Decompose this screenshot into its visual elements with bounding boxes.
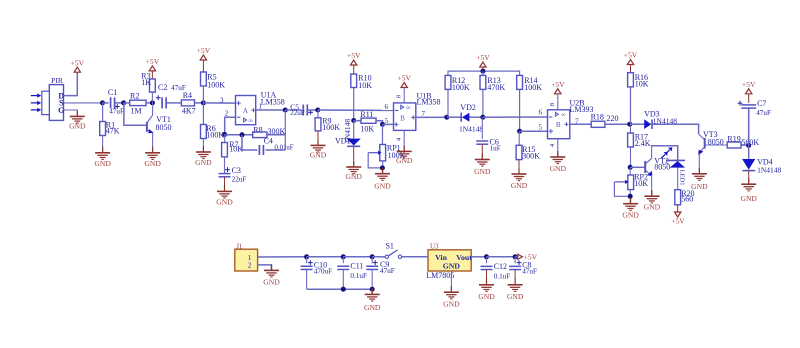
- svg-text:U3: U3: [430, 242, 439, 250]
- svg-text:GND: GND: [740, 194, 757, 203]
- wire VD3 to VT3: [652, 124, 699, 134]
- ground under RP2: [622, 198, 639, 220]
- svg-text:+5V: +5V: [71, 58, 85, 67]
- pin 4 stub U1B: [396, 130, 405, 151]
- +5V at C7: [742, 80, 756, 94]
- capacitor C2: [156, 83, 186, 108]
- pin 2 label: [225, 109, 229, 117]
- svg-text:220: 220: [607, 114, 619, 123]
- svg-text:47uF: 47uF: [109, 108, 124, 116]
- svg-text:∞: ∞: [248, 118, 253, 125]
- svg-text:300K: 300K: [522, 152, 540, 161]
- svg-text:100K: 100K: [207, 81, 225, 90]
- svg-text:GND: GND: [443, 262, 461, 271]
- node B at C1/R2/VT1 base: [121, 100, 126, 105]
- wire U1B output: [416, 116, 447, 118]
- top rail wire: [448, 71, 520, 75]
- wire VT3 emitter to ground: [698, 154, 700, 174]
- pin 5 label U1B: [385, 117, 389, 125]
- node F at pin2/R7/R8: [222, 132, 227, 137]
- ground under C9: [364, 288, 381, 312]
- pin 7 label U2B: [575, 118, 579, 126]
- wire rail C10 to C11: [307, 256, 344, 258]
- diode VD1 1N4148: [335, 119, 361, 147]
- wire PIR S pin to node: [64, 102, 103, 104]
- resistor R10: [351, 65, 373, 90]
- svg-text:GND: GND: [622, 211, 639, 220]
- wire node F to R8: [225, 134, 253, 136]
- capacitor C10: [301, 257, 333, 289]
- ground under C8: [507, 279, 524, 301]
- svg-text:22uF: 22uF: [232, 175, 247, 183]
- wire C9 to switch S1: [372, 256, 385, 258]
- svg-text:R18: R18: [591, 113, 604, 122]
- wire R10 to node I: [353, 88, 355, 121]
- resistor R8: [253, 125, 286, 137]
- wire VT2 emitter to ground: [651, 175, 653, 196]
- diode VD2 1N4148: [447, 103, 484, 134]
- capacitor C1: [108, 88, 124, 116]
- node S at C10: [304, 254, 309, 259]
- capacitor C6: [476, 117, 500, 152]
- node K at RP1 bottom: [380, 165, 385, 170]
- svg-text:GND: GND: [691, 182, 708, 191]
- wire node to C1: [103, 102, 109, 104]
- +5V at U2B pin 8: [551, 80, 565, 110]
- svg-text:47K: 47K: [106, 127, 120, 136]
- svg-text:5: 5: [538, 124, 542, 132]
- wire C7 to node R: [748, 108, 750, 159]
- regulator U3 LM7805: [426, 242, 472, 279]
- pin 6 label U2B: [538, 109, 542, 117]
- svg-text:GND: GND: [144, 159, 161, 168]
- svg-text:J1: J1: [236, 242, 243, 250]
- node J at U1B pin5/RP1: [380, 122, 385, 127]
- resistor R17: [628, 124, 651, 148]
- svg-text:47uF: 47uF: [522, 268, 537, 276]
- +5V output port: [515, 252, 538, 261]
- ground under C12: [478, 279, 495, 301]
- ground under R1: [94, 147, 111, 168]
- resistor R7: [222, 135, 244, 157]
- svg-text:100K: 100K: [322, 123, 340, 132]
- svg-text:B: B: [556, 121, 561, 129]
- resistor R11: [354, 110, 383, 133]
- ground under U3: [443, 286, 460, 308]
- wire C2 to R4: [166, 102, 181, 104]
- svg-text:R4: R4: [183, 91, 192, 100]
- svg-text:47uF: 47uF: [380, 267, 395, 275]
- transistor VT1 8050: [147, 103, 172, 133]
- wire R1 to ground: [102, 136, 104, 153]
- capacitor C7: [738, 94, 771, 117]
- wire U1A output: [256, 109, 286, 111]
- wire R20 to +5V: [677, 205, 679, 212]
- diode VD4 1N4148: [742, 157, 781, 174]
- svg-text:8: 8: [396, 95, 403, 98]
- svg-text:GND: GND: [94, 159, 111, 168]
- ground under VT2: [644, 190, 661, 211]
- svg-text:4K7: 4K7: [182, 107, 196, 116]
- svg-text:C7: C7: [757, 99, 766, 108]
- node E at U1A output: [283, 108, 288, 113]
- svg-text:GND: GND: [644, 203, 661, 212]
- svg-text:GND: GND: [195, 158, 212, 167]
- resistor R6: [201, 103, 225, 139]
- resistor R4: [181, 91, 203, 116]
- svg-text:GND: GND: [396, 156, 413, 165]
- svg-text:1: 1: [259, 102, 263, 110]
- svg-text:0.01uF: 0.01uF: [275, 144, 294, 151]
- +5V at R16: [624, 51, 638, 65]
- svg-text:LM7805: LM7805: [426, 271, 454, 280]
- svg-text:B: B: [400, 114, 405, 122]
- svg-text:C12: C12: [494, 262, 507, 271]
- svg-text:GND: GND: [364, 303, 381, 312]
- wire PIR D pin to +5V: [64, 72, 78, 95]
- svg-text:VD2: VD2: [460, 103, 476, 112]
- resistor R19: [727, 135, 759, 148]
- wire U3 GND pin: [450, 271, 452, 292]
- node I at R10/VD1/R11: [351, 118, 356, 123]
- svg-text:1uF: 1uF: [490, 145, 501, 153]
- node V at bottom rail C11: [341, 287, 346, 292]
- node N at R14/R15/U2B pin5: [517, 129, 522, 134]
- svg-text:C3: C3: [232, 166, 241, 175]
- wire U1A pin 2: [225, 117, 236, 134]
- wire S1 to U3: [402, 256, 428, 258]
- svg-text:GND: GND: [216, 198, 233, 207]
- svg-text:22uF: 22uF: [290, 109, 305, 117]
- svg-text:6: 6: [538, 109, 542, 117]
- svg-text:R2: R2: [130, 91, 139, 100]
- svg-text:8: 8: [549, 103, 556, 106]
- pin 7 label U1B: [422, 110, 426, 118]
- capacitor C3: [219, 157, 247, 183]
- pin 8 label U2B: [549, 103, 556, 106]
- +5V at U1B pin 8: [397, 74, 411, 103]
- ground under C3: [216, 185, 233, 206]
- +5V at R5: [197, 46, 211, 60]
- wire R6 to ground: [202, 139, 204, 153]
- node T at C11 top: [341, 254, 346, 259]
- svg-text:C1: C1: [108, 88, 117, 97]
- svg-text:5: 5: [385, 117, 389, 125]
- wire R16 to node O: [630, 87, 632, 124]
- wire C8 to ground: [514, 270, 516, 285]
- ground under R9: [310, 139, 327, 159]
- wire VD4 to ground: [748, 171, 750, 185]
- potentiometer RP2: [614, 167, 648, 203]
- wire R9 to ground: [317, 131, 319, 146]
- wire node N to U2B pin 5: [520, 130, 548, 132]
- svg-text:10K: 10K: [358, 81, 372, 90]
- node O at R16/R17/VD3: [627, 122, 632, 127]
- wire rail C11 to C9: [343, 256, 372, 258]
- wire R15 to ground: [518, 160, 520, 174]
- node H at R9: [315, 108, 320, 113]
- svg-text:∞: ∞: [561, 112, 566, 119]
- svg-text:10K: 10K: [634, 179, 648, 188]
- svg-text:47uF: 47uF: [756, 109, 771, 117]
- svg-text:GND: GND: [374, 181, 391, 190]
- ground at PIR G pin: [69, 110, 86, 130]
- svg-text:GND: GND: [263, 278, 280, 287]
- resistor R14: [517, 75, 543, 131]
- wire R17 to node P: [630, 147, 632, 167]
- svg-text:1M: 1M: [131, 106, 142, 115]
- svg-text:470uF: 470uF: [314, 267, 332, 275]
- svg-text:∞: ∞: [406, 105, 411, 112]
- switch S1: [385, 241, 402, 258]
- resistor R16: [628, 65, 649, 89]
- wire C6 to ground: [481, 144, 483, 159]
- wire node M to U2B pin 6: [483, 116, 548, 118]
- ground under VT3: [691, 168, 708, 191]
- transistor VT3 8050: [698, 130, 727, 155]
- svg-text:A: A: [243, 107, 248, 115]
- svg-text:GND: GND: [443, 300, 460, 309]
- resistor R1: [100, 103, 120, 136]
- comparator U2B LM393: [548, 99, 594, 139]
- svg-text:+5V: +5V: [742, 80, 756, 89]
- bottom rail: [307, 288, 373, 290]
- svg-text:S1: S1: [385, 241, 393, 250]
- wire C12 to C8: [487, 256, 516, 258]
- pin 6 label U1B: [384, 103, 388, 111]
- svg-text:10K: 10K: [360, 124, 374, 133]
- capacitor C11: [337, 257, 367, 289]
- ground under R6: [195, 146, 212, 167]
- node Y at C8: [513, 254, 518, 259]
- svg-text:+5V: +5V: [671, 216, 685, 225]
- svg-text:GND: GND: [478, 292, 495, 301]
- svg-text:GND: GND: [507, 292, 524, 301]
- resistor R5: [201, 60, 226, 103]
- svg-text:2: 2: [225, 109, 229, 117]
- svg-text:+5V: +5V: [551, 80, 565, 89]
- svg-text:2.4K: 2.4K: [635, 139, 651, 148]
- ground at J1 pin 2: [263, 264, 280, 286]
- svg-text:GND: GND: [69, 121, 86, 130]
- pin 1 label: [259, 102, 263, 110]
- pin 4 stub U2B: [549, 139, 558, 157]
- node X at C12: [484, 254, 489, 259]
- wire feedback vertical: [284, 110, 286, 150]
- svg-text:G: G: [58, 106, 64, 115]
- +5V below R20: [671, 212, 685, 225]
- svg-text:10K: 10K: [229, 145, 243, 154]
- svg-text:C2: C2: [158, 83, 167, 92]
- resistor R3: [141, 71, 155, 103]
- pin 5 label U2B: [538, 124, 542, 132]
- pin 8 label U1B: [396, 95, 403, 98]
- node R at R19/C7/VD4: [746, 143, 751, 148]
- capacitor C4: [242, 135, 294, 155]
- wire J1 pin 2 to ground: [258, 265, 272, 271]
- wire node D to U1A pin 3: [203, 102, 235, 104]
- wire PIR G pin to ground: [64, 110, 78, 116]
- svg-text:10K: 10K: [635, 79, 649, 88]
- svg-text:7: 7: [422, 110, 426, 118]
- op-amp U1B LM358: [394, 91, 441, 130]
- svg-text:+5V: +5V: [624, 51, 638, 60]
- svg-text:1N4148: 1N4148: [343, 119, 352, 143]
- node L at U1B out/R12: [444, 115, 449, 120]
- svg-text:GND: GND: [474, 167, 491, 176]
- +5V at PIR: [71, 58, 85, 72]
- ground under VD4: [740, 178, 757, 203]
- resistor R15: [516, 131, 540, 160]
- svg-text:100K: 100K: [206, 130, 224, 139]
- pin 3 label: [220, 96, 224, 104]
- svg-text:2: 2: [248, 260, 252, 269]
- svg-text:100K: 100K: [452, 83, 470, 92]
- resistor R9: [315, 110, 340, 132]
- node D at R5/R6: [201, 100, 206, 105]
- ground under C6: [474, 154, 491, 177]
- wire node J to U1B pin 5: [383, 123, 394, 125]
- +5V at R10: [347, 51, 361, 65]
- +5V at R3: [146, 57, 160, 71]
- svg-text:LM358: LM358: [417, 97, 441, 106]
- svg-text:R19: R19: [727, 135, 740, 144]
- wire U2B output to R18: [570, 123, 591, 125]
- capacitor C12: [481, 257, 511, 281]
- wire VT1 base bias: [124, 103, 147, 125]
- svg-text:0.1uF: 0.1uF: [350, 272, 367, 280]
- node U at C9 top: [370, 254, 375, 259]
- diode VD3 1N4148: [630, 110, 677, 130]
- svg-text:C4: C4: [264, 136, 273, 145]
- svg-text:+5V: +5V: [524, 252, 538, 261]
- svg-text:1N4148: 1N4148: [757, 166, 781, 175]
- svg-text:470K: 470K: [487, 83, 505, 92]
- connector J1: [235, 242, 258, 271]
- wire U3 out to C12: [471, 256, 486, 258]
- svg-text:8050: 8050: [654, 163, 670, 172]
- svg-text:+5V: +5V: [197, 46, 211, 55]
- wire C1 to node B: [115, 102, 124, 104]
- wire C12 to ground: [486, 270, 488, 285]
- svg-text:100K: 100K: [524, 83, 542, 92]
- svg-text:3: 3: [220, 96, 224, 104]
- wire bottom rail to ground: [371, 289, 373, 294]
- svg-text:R11: R11: [360, 110, 373, 119]
- svg-text:C11: C11: [350, 261, 363, 270]
- resistor R12: [445, 75, 470, 117]
- svg-text:8050: 8050: [708, 137, 724, 146]
- wire J1 pin 1 rail: [258, 256, 307, 258]
- svg-text:GND: GND: [511, 181, 528, 190]
- svg-text:LM358: LM358: [261, 97, 285, 106]
- wire node H to U1B pin 6: [318, 109, 394, 111]
- ground under RP1: [374, 168, 391, 191]
- svg-text:+5V: +5V: [347, 51, 361, 60]
- node at R1/C1: [100, 100, 105, 105]
- PIR input arrows: [31, 93, 41, 112]
- capacitor C9: [366, 257, 395, 289]
- svg-text:560: 560: [681, 194, 693, 203]
- +5V at comparator rail: [476, 53, 490, 71]
- node G at C4 branch: [240, 132, 245, 137]
- ground at U1B pin 4: [396, 145, 413, 165]
- node rail/+5V: [480, 69, 485, 74]
- op-amp U1A LM358: [236, 91, 285, 125]
- svg-text:R8: R8: [253, 125, 262, 134]
- resistor R20: [675, 189, 695, 205]
- resistor R2: [124, 91, 153, 115]
- transistor VT2 8050: [630, 146, 670, 176]
- wire VT1 emitter to ground: [152, 133, 154, 153]
- svg-text:+5V: +5V: [397, 74, 411, 83]
- svg-text:1K: 1K: [141, 78, 151, 87]
- node P at VT2 base/RP2: [628, 165, 633, 170]
- svg-text:0.1uF: 0.1uF: [494, 272, 511, 280]
- capacitor C5: [290, 102, 313, 117]
- svg-text:GND: GND: [310, 150, 327, 159]
- svg-text:+5V: +5V: [476, 53, 490, 62]
- wire C5 to node H: [307, 109, 318, 111]
- svg-text:1N4148: 1N4148: [459, 124, 483, 133]
- svg-text:PIR: PIR: [51, 76, 63, 85]
- svg-text:6: 6: [384, 103, 388, 111]
- svg-text:+5V: +5V: [146, 57, 160, 66]
- node Q at RP2 bottom: [628, 194, 633, 199]
- svg-text:8050: 8050: [156, 123, 172, 132]
- wire U1A out to C5: [285, 109, 301, 111]
- ground under VD1: [345, 161, 362, 181]
- svg-text:GND: GND: [550, 164, 567, 173]
- LED LED1: [661, 147, 685, 190]
- resistor R18: [591, 113, 630, 128]
- potentiometer RP1: [368, 124, 405, 173]
- resistor R13: [480, 71, 505, 117]
- wire VT2 collector rail: [652, 146, 678, 160]
- wire C3 to ground: [224, 177, 226, 192]
- capacitor C8: [509, 257, 537, 276]
- ground at U2B pin 4: [550, 151, 567, 173]
- svg-text:GND: GND: [345, 172, 362, 181]
- ground under VT1: [144, 147, 161, 168]
- PIR sensor module: [42, 76, 65, 120]
- node M at VD2/R13/C6: [480, 115, 485, 120]
- svg-text:LED1: LED1: [678, 170, 685, 186]
- wire VD1 to ground: [353, 146, 355, 167]
- ground under R15: [511, 168, 528, 190]
- node W at bottom rail C9: [370, 287, 375, 292]
- node C at R2/R3/C2/VT1 collector: [150, 100, 155, 105]
